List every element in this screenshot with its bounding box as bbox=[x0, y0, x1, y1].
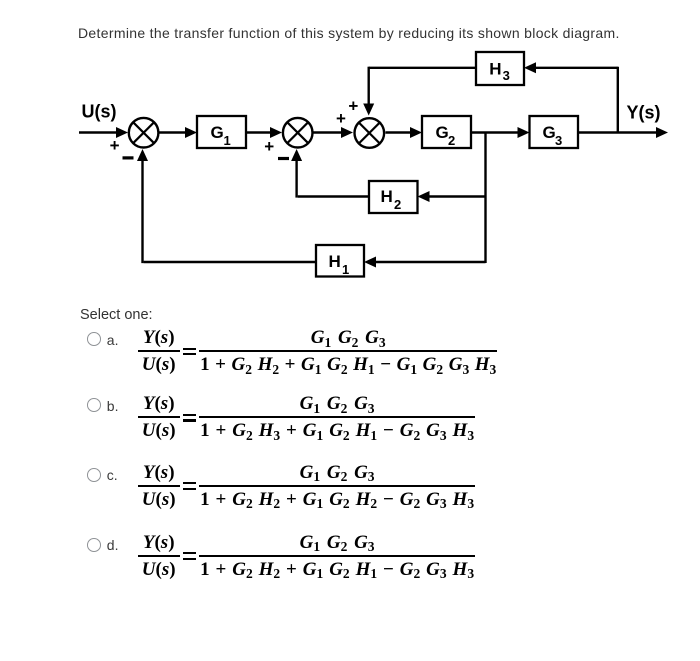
svg-text:+: + bbox=[264, 137, 274, 156]
node Y(s) label bbox=[627, 103, 661, 123]
summing junction S2 bbox=[283, 118, 313, 148]
wire H3 to S3 bbox=[363, 67, 476, 116]
block H3 bbox=[476, 52, 524, 85]
svg-text:H: H bbox=[489, 59, 501, 78]
wire into H2 bbox=[418, 191, 486, 202]
wire S1 to G1 bbox=[159, 127, 197, 138]
wire G1 to S2 bbox=[246, 127, 282, 138]
svg-text:1: 1 bbox=[342, 262, 349, 277]
svg-text:+: + bbox=[348, 96, 358, 115]
block H2 bbox=[369, 181, 418, 213]
svg-text:U(s): U(s) bbox=[82, 101, 117, 121]
svg-text:3: 3 bbox=[555, 133, 562, 148]
svg-text:1: 1 bbox=[224, 133, 231, 148]
svg-text:H: H bbox=[381, 187, 393, 206]
svg-text:2: 2 bbox=[448, 133, 455, 148]
svg-text:G: G bbox=[211, 123, 224, 142]
svg-text:+: + bbox=[336, 109, 346, 128]
node takeoff output to H3 bbox=[617, 67, 619, 133]
svg-text:Y(s): Y(s) bbox=[627, 103, 661, 123]
wire G2 to G3 bbox=[471, 127, 530, 138]
svg-text:G: G bbox=[436, 123, 449, 142]
S3 plus sign top bbox=[348, 96, 358, 115]
wire into H1 bbox=[364, 257, 486, 268]
wire U(s) input bbox=[79, 127, 128, 138]
svg-text:G: G bbox=[543, 123, 556, 142]
wire G3 to output Y(s) bbox=[578, 127, 668, 138]
svg-text:H: H bbox=[329, 252, 341, 271]
block G2 bbox=[422, 116, 471, 148]
S1 minus sign bbox=[123, 156, 134, 159]
node takeoff after G2 bbox=[484, 133, 486, 264]
summing junction S3 bbox=[355, 118, 385, 148]
block G3 bbox=[530, 116, 579, 148]
svg-text:3: 3 bbox=[503, 68, 510, 83]
wire S2 to S3 bbox=[313, 127, 353, 138]
S2 plus sign bbox=[264, 137, 274, 156]
wire H1 to S1 bbox=[137, 149, 316, 263]
block G1 bbox=[197, 116, 246, 148]
svg-text:2: 2 bbox=[394, 197, 401, 212]
S3 plus sign left bbox=[336, 109, 346, 128]
svg-text:+: + bbox=[110, 136, 120, 155]
S2 minus sign bbox=[278, 157, 289, 160]
wire H2 to S2 bbox=[291, 149, 369, 198]
node U(s) label bbox=[82, 101, 117, 121]
wire S3 to G2 bbox=[386, 127, 423, 138]
S1 plus sign bbox=[110, 136, 120, 155]
block H1 bbox=[316, 245, 364, 277]
wire into H3 bbox=[524, 62, 618, 73]
summing junction S1 bbox=[129, 118, 159, 148]
